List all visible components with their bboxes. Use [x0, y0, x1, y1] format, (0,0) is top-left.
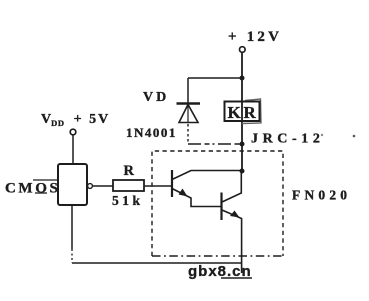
svg-text:VD: VD [143, 90, 169, 105]
transistor Q2 emitter arrow [230, 211, 240, 218]
svg-text:R: R [124, 163, 135, 179]
svg-text:CMOS: CMOS [5, 181, 60, 197]
svg-text:+ 12V: + 12V [228, 29, 282, 45]
wire: diode cathode lead [187, 78, 189, 104]
wire: gate output down [71, 205, 73, 249]
relay coil KR shadow [242, 99, 261, 124]
transistor Q1 collector [172, 171, 242, 180]
node: diode return junction [240, 142, 245, 147]
resistor R body [113, 180, 144, 191]
wire: bottom rail [72, 262, 242, 264]
relay coil KR [225, 102, 260, 122]
node: branch junction [240, 76, 245, 81]
diode VD cathode bar [177, 102, 201, 104]
transistor Q1 emitter arrow [179, 189, 188, 197]
wire: main vertical from +12V to collector node [241, 53, 243, 172]
wire: bubble to resistor [93, 185, 113, 187]
wire: VDD to gate [72, 135, 74, 164]
wire: resistor to base [144, 185, 172, 187]
noise speck [321, 134, 323, 136]
svg-text:51k: 51k [112, 193, 144, 208]
transistor Q2 base bar [220, 193, 222, 221]
VDD terminal [70, 129, 76, 135]
CMOS gate U1 [58, 164, 87, 205]
svg-text:VDD + 5V: VDD + 5V [41, 112, 110, 128]
noise speck [353, 135, 356, 138]
watermark underline [221, 277, 252, 279]
darlington box bottom dash-dot [152, 255, 283, 257]
inverter bubble [88, 184, 93, 189]
CMOS overline [33, 179, 57, 181]
transistor Q1 base bar [171, 170, 173, 197]
wire: branch to diode [188, 77, 242, 79]
svg-text:FN020: FN020 [292, 188, 351, 203]
wire: gate output down dotted [71, 249, 73, 263]
transistor Q1 emitter [172, 189, 222, 207]
diode anode lead through triangle [187, 105, 189, 123]
wire: dash-dot return to relay [188, 143, 242, 145]
transistor Q2 emitter [222, 210, 242, 273]
+12V terminal [240, 47, 246, 53]
CMOS underline [35, 192, 47, 194]
darlington module dashed box [152, 151, 283, 256]
node: collector junction [240, 169, 245, 174]
diode VD triangle [179, 105, 198, 123]
wire: diode anode lead (dotted) [187, 124, 189, 144]
transistor Q2 collector [222, 171, 241, 202]
svg-text:R: R [244, 103, 257, 122]
svg-text:JRC-12: JRC-12 [251, 132, 324, 147]
svg-text:1N4001: 1N4001 [126, 125, 177, 140]
svg-text:K: K [228, 103, 242, 122]
